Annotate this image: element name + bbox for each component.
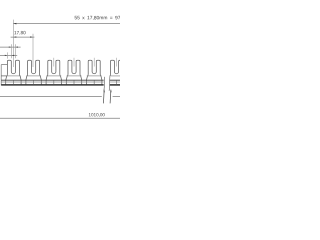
dimension line A (broken like the part) [0,95,102,97]
prong width dimension (lower small) [0,54,17,56]
dimension text 1010,00 [89,113,105,117]
dimension line 1010,00 [0,117,120,119]
break line right [108,77,111,91]
top dimension left arrow [13,23,16,25]
fork 4 [66,60,81,85]
extension line fork1 center [12,20,14,67]
extension line fork2 center [32,34,34,67]
break stroke A1 [102,90,105,104]
fork 3 [46,60,61,85]
fork 5 [87,60,102,85]
break line left [103,77,106,91]
fork tab seams in rail [12,80,14,84]
busbar rail right section [109,79,120,81]
dimension text 55 x 17,80mm = 979,00 (cut at right edge) [75,16,130,20]
pitch dim right arrow [30,36,33,37]
pitch dim left arrow [13,36,16,37]
fork 2 [26,60,41,85]
fork 1 [6,60,21,85]
pitch dimension line 17,80 [11,36,35,38]
fork center ticks [53,58,55,67]
slot width dimension (upper small) [0,46,21,48]
dimension text 17,80 [14,31,25,35]
fork 6 (after break, clipped) [109,60,124,85]
prong outer edge extension line [6,52,8,58]
break stroke A2 [109,90,112,104]
left end cap of busbar housing [0,65,2,86]
busbar rail left section [1,79,104,81]
slot edge extension lines [10,44,12,58]
top dimension line (55 x 17,80mm) [13,23,120,25]
